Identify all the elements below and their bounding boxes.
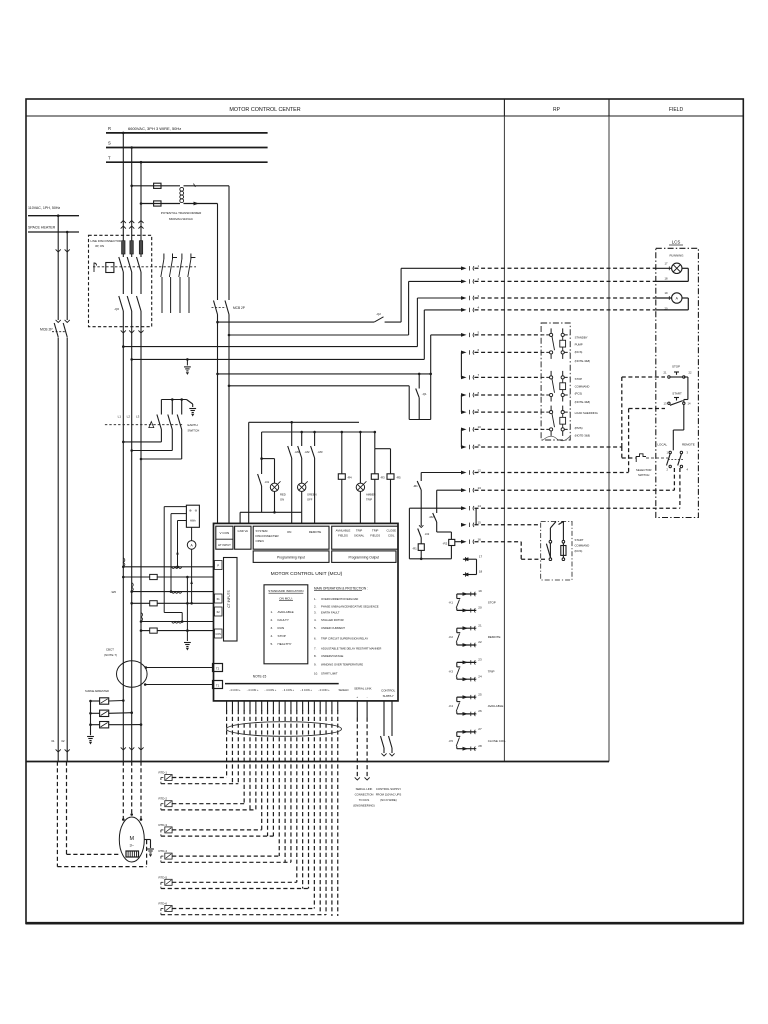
relay LOAD SHEDDING contacts [541,406,570,436]
svg-text:L1: L1 [118,415,122,419]
contact -D1 [258,459,262,513]
earth switch pole 2 [132,400,173,451]
fuse F1 [154,183,161,188]
contact -Q1 interlock [416,373,421,420]
aux contact 2 [169,254,177,314]
disconnector operator hook [94,263,97,272]
label -M3 top [318,450,323,454]
svg-text:AVAILABLE: AVAILABLE [278,610,294,614]
svg-text:3P, ON: 3P, ON [95,244,104,248]
label -R4 [347,476,352,480]
MCU terminal 62 [215,607,223,616]
svg-text:GREEN: GREEN [307,493,317,497]
svg-text:- 4 CON +: - 4 CON + [247,688,259,692]
MCU 4CON labels [229,688,330,692]
arrow phase L2 up [129,221,134,229]
svg-text:CLOSE COIL: CLOSE COIL [488,739,506,743]
svg-text:- 4 CON +: - 4 CON + [318,688,330,692]
wire 5 [431,331,541,337]
bus label 6600VAC [128,126,181,131]
wire 11 [461,443,622,449]
svg-text:PHASE UNBALANCE/NEGATIVE SEQUE: PHASE UNBALANCE/NEGATIVE SEQUENCE [321,604,379,608]
svg-text:-R2: -R2 [443,542,448,546]
svg-text:26: 26 [478,709,482,713]
svg-text:2.: 2. [314,604,317,608]
wire phase L3 drop [140,162,142,241]
lamp RUNNING [656,261,682,280]
contact group TRIP wires 23-24 [449,658,495,682]
aux contact 4 [188,254,196,314]
svg-text:L3: L3 [136,415,140,419]
svg-text:12: 12 [478,468,482,472]
fuse phase2 [130,241,133,254]
RTD-2 [159,797,256,810]
svg-text:(DCS): (DCS) [575,549,583,553]
relay STOP COMMAND contacts [541,371,570,402]
wire riser M1 [417,473,423,544]
svg-text:RUN: RUN [278,626,285,630]
label STANDBY PUMP [575,336,591,364]
svg-text:M: M [130,836,135,842]
ammeter return loop [656,298,689,310]
MCU box [214,523,399,701]
cable bundle ellipse [227,722,342,737]
svg-text:START LIMIT: START LIMIT [321,671,338,675]
svg-text:CONNECTION: CONNECTION [355,793,374,797]
node ES a [171,398,174,401]
resistor -R1 [418,544,424,551]
label -M2 top [305,450,310,454]
svg-text:FIELDS: FIELDS [338,534,348,538]
label SERIAL LINK [354,687,371,700]
svg-text:RTD-6: RTD-6 [159,902,168,906]
label -Q1 [422,392,427,396]
bus T [106,155,268,162]
svg-text:-M2: -M2 [305,450,310,454]
svg-text:17: 17 [665,261,668,265]
svg-text:MCB 2P: MCB 2P [40,328,53,332]
label -W6 [111,590,117,594]
wire riser 4 [423,310,425,360]
svg-text:11: 11 [478,443,481,447]
RTD-4 [159,849,291,862]
svg-text:-D2: -D2 [425,532,430,536]
svg-text:-K2: -K2 [449,635,454,639]
label LCS [669,240,683,246]
svg-text:21: 21 [478,623,482,627]
arrow heater 31 bottom [56,748,61,762]
node rowA tap [216,321,219,324]
control supply wires [381,718,395,757]
earth switch top bar [161,400,192,408]
wire top rail B [262,431,375,433]
svg-text:SHIELD: SHIELD [338,688,348,692]
svg-text:TRIP: TRIP [366,498,372,502]
title band divider RP-left [503,99,505,116]
aux contact 1 [161,254,164,314]
svg-text:COMMAND: COMMAND [575,384,590,388]
svg-text:13: 13 [664,402,667,406]
MCU standard indication box [264,585,308,664]
current transformer CT3 [140,613,214,634]
wire 14 [409,504,680,525]
label STOP COMMAND [575,377,591,404]
label SPACE HEATER [28,226,56,230]
svg-text:POTENTIAL TRANSFORMER: POTENTIAL TRANSFORMER [161,211,202,215]
MCU terminal T2 [213,664,223,672]
svg-text:27: 27 [478,727,482,731]
wire top rail A [249,421,359,423]
wire phase1 field dashed [122,762,125,821]
wire R2 tail [450,546,452,559]
svg-text:S: S [108,141,111,146]
wire phase2 field dashed [130,762,133,816]
svg-text:RTD-3: RTD-3 [159,823,168,827]
relay STANDBY PUMP contacts [541,328,570,359]
LCS box [656,248,699,517]
wire 14 riser to selector [679,468,681,508]
svg-text:3.: 3. [314,611,317,615]
svg-text:(NO.9 WIRE): (NO.9 WIRE) [380,798,397,802]
label -R3 [380,476,385,480]
disconnector main blade 1 [119,296,126,442]
MCU protection list [314,597,381,675]
node PT tap phase3 [140,202,143,205]
svg-text:SERIAL LINK: SERIAL LINK [356,787,373,791]
wire riser wire14 [408,508,410,559]
svg-text:-W6: -W6 [111,590,117,594]
svg-text:-R5: -R5 [396,476,401,480]
svg-text:V CON: V CON [219,531,229,535]
svg-text:SELECTOR: SELECTOR [636,468,652,472]
wire space heater feeder [28,231,79,233]
label control supply from UPS [376,787,402,802]
svg-text:STALLED ROTOR: STALLED ROTOR [321,618,344,622]
RTD-5 [159,875,309,888]
label -M2 [429,515,434,519]
svg-text:SURGE ARRESTER: SURGE ARRESTER [85,689,109,693]
svg-text:LCS: LCS [672,240,681,245]
svg-text:-: - [367,695,368,699]
svg-text:SERIAL LINK: SERIAL LINK [354,687,371,691]
contact -M2 top [298,431,303,483]
title band divider FIELD-left [608,99,610,116]
svg-text:-Q1: -Q1 [422,392,427,396]
pushbutton START [664,392,691,406]
svg-text:6600VAC, 3PH 3 WIRE, 50Hz: 6600VAC, 3PH 3 WIRE, 50Hz [128,126,181,131]
bottom border thick [26,922,743,925]
wire 3 [417,294,655,300]
svg-text:STOP: STOP [672,365,680,369]
wire riser 1 [400,268,402,322]
fuse phase3 [139,241,142,254]
wire riser 2 [408,281,410,335]
svg-text:7.: 7. [314,646,317,650]
MCU title [271,571,343,577]
svg-text:TO DCS: TO DCS [359,798,370,802]
ammeter lamp [656,291,682,310]
node rowD tap [130,358,133,361]
wire 10 [461,425,541,447]
resistor -R3 [371,431,390,524]
arrow phase2 bottom [129,744,134,762]
wire RTD-3 risers [262,710,274,836]
node phase2 ES junction [130,449,133,452]
wire 110VAC feeder [28,215,79,217]
arrow heater 32 bottom [65,748,70,762]
svg-text:20: 20 [478,606,482,610]
ammeter A [187,527,196,604]
label -D1 [265,480,270,484]
svg-text:(NOTE-3&8): (NOTE-3&8) [575,433,591,437]
svg-text:9.: 9. [314,663,317,667]
wire PT primary lower [141,203,180,205]
riser rail B left [261,432,263,459]
svg-text:RTD-1: RTD-1 [159,771,168,775]
wire 4 [424,306,656,312]
wire RTD-5 risers [297,710,309,889]
svg-text:FIELDS: FIELDS [370,534,380,538]
wire START to selector [673,405,684,451]
wire 13 [437,486,675,492]
svg-text:21: 21 [664,371,667,375]
wire RTD-6 risers [314,710,326,915]
label L1 [118,415,122,419]
wire phase L1 drop [122,133,124,241]
wire phase1 lower run [122,442,124,744]
column line RP-left [503,116,505,762]
MCU terminal P [215,561,223,570]
node rowE tap [216,373,219,376]
ground earth-switch [189,409,196,417]
label POTENTIAL TRANSFORMER [161,211,202,221]
label CBCT [104,648,117,658]
motor M [119,817,144,862]
RTD-3 [159,823,274,836]
svg-text:ADJUSTABLE TIME DELAY RESTART: ADJUSTABLE TIME DELAY RESTART MANNER [321,646,381,650]
bus R [106,126,268,133]
arrow heater 32 [65,320,70,323]
transformer PT coil [180,187,184,202]
svg-text:-K1: -K1 [449,601,454,605]
svg-text:STOP: STOP [278,634,286,638]
svg-text:6600VAC/110VAC: 6600VAC/110VAC [169,217,194,221]
svg-text:61: 61 [217,597,221,601]
svg-text:REMOTE: REMOTE [309,530,321,534]
node heater tap 2 [66,231,69,234]
node rowF tap [228,385,231,388]
lamp AMBER [356,431,366,524]
wire 13 riser to selector [673,468,675,490]
svg-text:SWITCH: SWITCH [188,429,200,433]
svg-text:EARTH FAULT: EARTH FAULT [321,611,340,615]
svg-text:L2: L2 [127,415,131,419]
svg-text:AMBER: AMBER [366,493,376,497]
wire 6 [461,348,541,377]
separator line MCC/field bottom [26,761,609,763]
node rowC tap [122,345,125,348]
wire heater line 32 upper [65,232,70,320]
svg-text:NOTE-15: NOTE-15 [253,675,267,679]
svg-text:COMMAND: COMMAND [575,544,590,548]
wire 11 riser to STOP [622,377,665,447]
surge arrester 3 [91,722,143,728]
svg-text:LOCAL: LOCAL [657,442,667,446]
svg-text:GND VA: GND VA [238,529,249,533]
wire bottom link [240,511,302,523]
svg-text:SIGNAL: SIGNAL [354,534,365,538]
lamp GREEN [298,481,308,512]
svg-text:TRIP: TRIP [488,669,495,673]
wire RTD-2 risers [244,710,256,810]
arrow phase L1 up [121,221,126,229]
svg-text:14: 14 [688,402,691,406]
wire 12 [421,468,628,474]
contact -Q2 rowA [374,317,383,322]
svg-text:17: 17 [479,554,483,558]
svg-text:REMOTE: REMOTE [682,442,695,446]
wire rowD [132,358,425,360]
motor ground [144,840,154,858]
label -R5 [396,476,401,480]
svg-text:CT INPUTS: CT INPUTS [227,590,231,608]
border frame [26,99,743,924]
svg-text:UNDERVOLTAGE: UNDERVOLTAGE [321,654,343,658]
svg-text:(NOTE-3&8): (NOTE-3&8) [575,359,591,363]
svg-text:15: 15 [478,521,482,525]
svg-text:RTD-4: RTD-4 [159,849,168,853]
svg-text:3.: 3. [271,626,274,630]
node rowB tap [228,334,231,337]
arrow phase1 bottom [121,744,126,762]
svg-text:10.: 10. [314,671,318,675]
svg-text:R: R [108,126,111,131]
MCU terminal 61 [215,594,223,603]
svg-text:5.: 5. [314,626,317,630]
contact group REMOTE wires 21-22 [449,623,501,647]
svg-text:T: T [108,155,111,160]
svg-text:TRIP: TRIP [372,529,379,533]
label LINE DISCONNECTOR [91,239,122,248]
svg-text:kWh: kWh [190,519,196,523]
svg-text:1.: 1. [271,610,274,614]
svg-text:CON: CON [216,633,222,636]
label MOTOR CONTROL CENTER [229,107,300,113]
wire PT secondary upper [184,185,230,187]
svg-text:RTD-5: RTD-5 [159,875,168,879]
svg-text:-M1: -M1 [413,484,418,488]
earth switch pole 3 [141,400,182,460]
disconnector main blade 2 [127,296,134,451]
svg-text:WINDING OVER TEMPERATURE: WINDING OVER TEMPERATURE [321,663,363,667]
wire control supply A [217,315,219,524]
svg-text:ON MCU:: ON MCU: [279,597,293,601]
MCU programming output bar [332,551,396,563]
lamp RUNNING return loop [656,268,689,281]
svg-text:19: 19 [478,589,482,593]
svg-text:Programming Output: Programming Output [348,556,379,560]
wire 9 [461,408,541,414]
wire rowC [123,346,417,348]
svg-text:STANDBY: STANDBY [575,336,588,340]
wire 11 to selector handle [622,447,636,458]
label 110VAC 1PH 50Hz [28,206,60,210]
svg-text:(PMS): (PMS) [575,426,583,430]
svg-text:FAULTY: FAULTY [278,618,289,622]
wire heater line 31 upper [56,216,61,320]
node bus-R tap [122,132,125,135]
disconnector blade 2 [127,254,132,294]
svg-text:T1: T1 [216,684,220,688]
contact group STOP wires 19-20 [449,589,496,612]
ground stub rowD [184,358,191,375]
svg-text:-K3: -K3 [449,669,454,673]
svg-text:RTD-2: RTD-2 [159,797,168,801]
wire 8 [461,391,541,412]
svg-text:FIELD: FIELD [669,107,684,113]
wire rowE [218,373,431,375]
svg-text:⊖: ⊖ [195,509,198,513]
wire CBCT to T1 [144,683,213,686]
svg-text:OPEN: OPEN [256,539,264,543]
svg-text:START: START [672,392,682,396]
disconnector coil [106,263,114,273]
disconnector linkage dashes [93,266,196,268]
earth switch linkage [105,424,184,426]
svg-text:REMOTE: REMOTE [488,635,501,639]
svg-text:(NOTE 7): (NOTE 7) [104,653,117,657]
disconnector box [89,235,152,326]
current transformer CT2 [130,583,213,606]
meter staple 1 [164,507,186,623]
wire phase2 lower run [131,451,133,745]
svg-text:23: 23 [478,658,482,662]
wire STOP-START link [684,377,688,402]
svg-text:-K5: -K5 [449,739,454,743]
svg-text:CONTROL SUPPLY: CONTROL SUPPLY [376,787,401,791]
wire 15 [461,521,541,527]
svg-text:-K4: -K4 [449,704,454,708]
wire heater field 32 [67,762,121,855]
bus S [106,141,268,148]
label L3 [136,415,140,419]
svg-text:(PCS): (PCS) [575,392,583,396]
node ES b [180,398,183,401]
wire 17 [463,554,483,574]
label wire 31 [51,739,55,743]
wire phase L2 drop [131,148,133,241]
svg-text:32: 32 [61,739,65,743]
svg-text:MAIN OPERATION & PROTECTION :: MAIN OPERATION & PROTECTION : [314,587,368,591]
svg-text:Programming Input: Programming Input [277,556,305,560]
MCU protection heading [314,587,368,591]
svg-text:(ENGINEERING): (ENGINEERING) [353,804,375,808]
relay START COMMAND box [541,521,572,580]
motor space heater element [126,851,139,857]
label -R2 [443,542,448,546]
breaker MCB 2P control [212,301,245,315]
wire rowB [229,334,409,336]
svg-text:18: 18 [479,570,483,574]
svg-text:CLOSE: CLOSE [387,529,397,533]
MCU cell GND VA [235,526,251,549]
svg-text:RED: RED [280,493,286,497]
RTD-6 [159,902,327,915]
arrow heater 31 [56,320,61,323]
wire phase3 field dashed [140,762,143,821]
label SHIELD [338,688,348,692]
svg-text:PUMP: PUMP [575,343,583,347]
